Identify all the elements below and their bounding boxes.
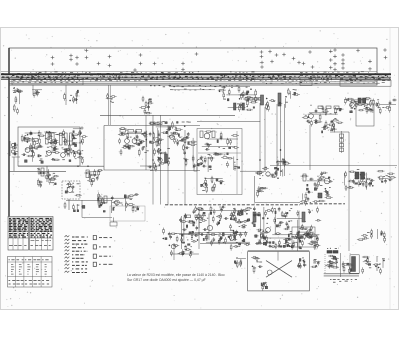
junction crosses on distribution bus: [51, 48, 388, 72]
wire drop to flyback: [330, 132, 349, 251]
tube V6c oscillator: [255, 167, 282, 179]
decoupler block: [218, 86, 258, 112]
wire sync line: [140, 166, 266, 171]
video amp enclosure: [104, 126, 200, 171]
connector J1 (antenna input): [10, 141, 20, 157]
connector pins on left rail: [13, 88, 23, 115]
long wire drop A: [145, 115, 147, 170]
connector tail left of yoke: [234, 258, 246, 268]
coupling network C10: [73, 126, 88, 164]
net labels along supply rails: [2, 72, 390, 90]
long wire drop E: [259, 103, 261, 176]
table tube socket connections: [8, 257, 53, 288]
tube V1 stage: [21, 130, 45, 163]
long wire drop F: [264, 107, 266, 171]
wire audio coupling: [66, 201, 112, 214]
frame output cluster: [251, 207, 321, 251]
wire horizontal bus right: [270, 165, 397, 167]
top stub cluster: [287, 88, 300, 99]
resistor stack: [340, 131, 344, 153]
tube V5 stage: [149, 121, 191, 147]
wire video bus: [100, 114, 235, 116]
boost enclosure: [356, 99, 397, 126]
coil taps on drops: [277, 158, 290, 167]
wire main LT bus: [165, 204, 345, 205]
tube V6b: [194, 155, 213, 172]
wire bus under tuner: [18, 166, 104, 167]
volume control stage: [97, 192, 139, 212]
cluster above yoke: [283, 240, 303, 251]
deflection yoke enclosure: [248, 250, 310, 291]
frame oscillator cluster: [179, 206, 256, 251]
long wire drop D: [167, 126, 169, 205]
tube V10 group: [377, 170, 396, 183]
long wire drop B: [152, 115, 154, 204]
sync enclosure: [197, 129, 242, 195]
long wire drop G: [276, 104, 278, 176]
hatched capacitor block: [261, 93, 288, 112]
AGC subcluster: [300, 190, 333, 206]
tube V3 stage: [57, 129, 79, 161]
tube V2 stage: [44, 131, 60, 161]
wire hor segment: [197, 121, 260, 123]
discriminator parts: [221, 153, 240, 171]
tuner stage box: [18, 127, 80, 166]
symbol legend list: [65, 235, 113, 272]
tube V7 video output: [302, 105, 344, 126]
audio output stage (dashed enclosure): [62, 181, 85, 212]
tube V9 group: [301, 172, 333, 191]
long wire drop H: [280, 104, 282, 176]
stub cluster: [322, 121, 337, 134]
wire screen feed: [309, 125, 311, 170]
frame blocking osc cluster: [163, 228, 200, 260]
sync phase cluster: [201, 176, 225, 193]
wire left sync drop: [184, 130, 186, 205]
focus divider cluster: [373, 256, 385, 274]
hatched blob H2: [344, 170, 374, 192]
table valve voltages: [8, 217, 53, 251]
svg-text:La valeur de R203 est modifiée: La valeur de R203 est modifiée, elle pas…: [127, 273, 225, 277]
wire bundle (supply rails): [1, 72, 391, 90]
wire AGC line: [9, 157, 66, 171]
bias network: [84, 169, 103, 187]
sync clipper cluster: [181, 132, 197, 168]
tube V4 IF amplifier: [118, 128, 149, 157]
junction dots on drops: [152, 149, 285, 162]
long wire drop C: [160, 115, 162, 204]
svg-text:Sur GR17 une diode OA4000 est: Sur GR17 une diode OA4000 est ajoutée — …: [127, 278, 206, 282]
cathode network V5: [148, 148, 170, 172]
EHT rectifier cluster: [324, 248, 372, 282]
yoke crossover wiring: [251, 252, 306, 291]
decoupling parts V4: [139, 96, 153, 115]
capacitor C31: [256, 186, 267, 197]
wire osc drop: [255, 176, 300, 203]
anode resistor chain: [243, 98, 263, 101]
caption note: [127, 273, 225, 282]
detector stage: [37, 166, 59, 188]
long wire drop I: [284, 104, 286, 176]
tube V8 stage: [344, 97, 374, 113]
terminal strip below bus: [12, 79, 391, 86]
wire stub and pad: [82, 200, 145, 226]
top-right of bottom cluster: [357, 229, 386, 243]
yoke coupling parts: [311, 260, 321, 268]
wire bus frame (heater/B+ distribution box): [9, 48, 377, 217]
tube V6 sync separator: [200, 131, 239, 160]
wire drop to IF stage: [32, 85, 117, 125]
